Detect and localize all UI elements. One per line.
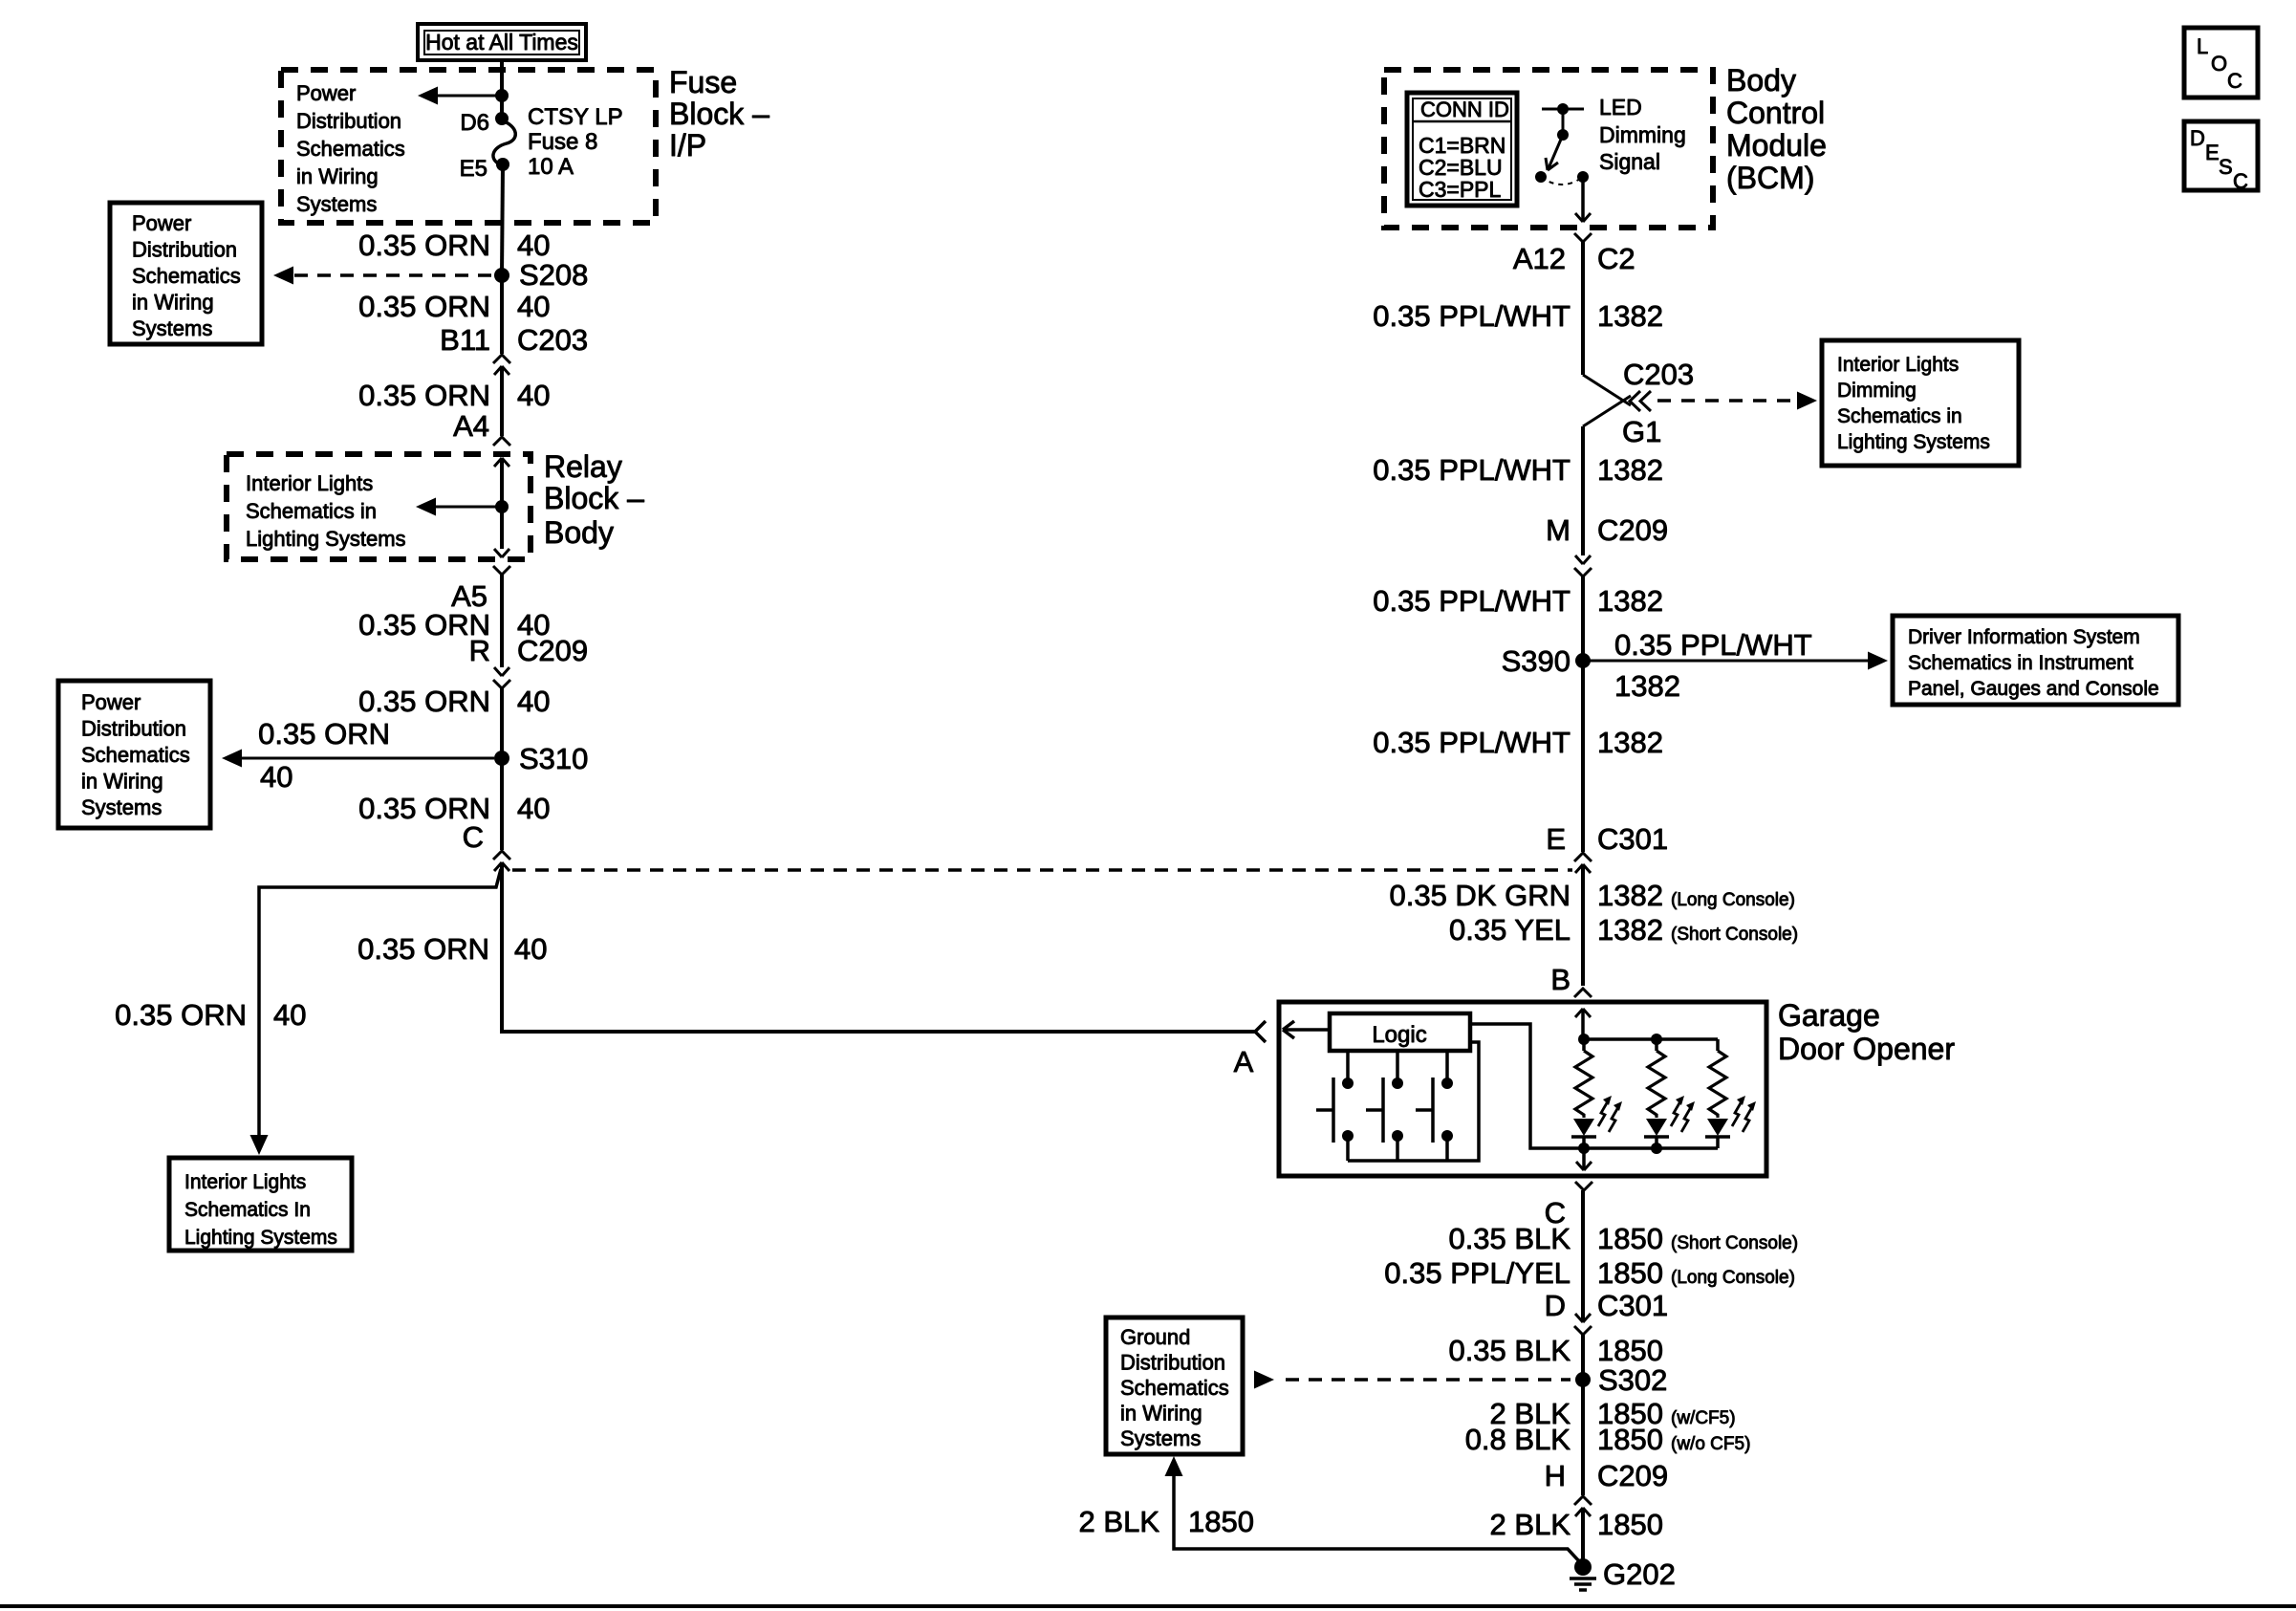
svg-text:0.35 ORN: 0.35 ORN [358,379,490,412]
svg-text:D: D [2190,126,2205,150]
svg-text:H: H [1545,1459,1566,1492]
svg-text:(Long Console): (Long Console) [1671,890,1795,910]
svg-text:I/P: I/P [669,128,706,163]
svg-text:in Wiring: in Wiring [81,770,163,794]
svg-text:C: C [2227,69,2242,93]
svg-text:C203: C203 [517,323,588,357]
svg-text:Schematics: Schematics [81,743,190,767]
svg-text:0.35 BLK: 0.35 BLK [1448,1222,1570,1255]
svg-text:E: E [1546,822,1566,856]
svg-text:(w/CF5): (w/CF5) [1671,1408,1736,1428]
svg-text:L: L [2197,34,2208,58]
svg-text:1850: 1850 [1597,1222,1663,1255]
svg-text:Driver Information System: Driver Information System [1908,626,2140,648]
svg-text:C209: C209 [517,634,588,667]
svg-text:C301: C301 [1597,822,1668,856]
svg-text:1382: 1382 [1614,669,1680,703]
svg-text:Module: Module [1726,128,1827,163]
svg-text:0.35 DK GRN: 0.35 DK GRN [1389,879,1570,912]
svg-text:Relay: Relay [544,449,622,484]
svg-text:0.35 PPL/WHT: 0.35 PPL/WHT [1373,584,1570,618]
svg-text:B11: B11 [440,323,490,357]
svg-text:Schematics in Instrument: Schematics in Instrument [1908,652,2134,674]
svg-text:0.35 BLK: 0.35 BLK [1448,1334,1570,1367]
svg-text:Distribution: Distribution [132,238,237,262]
svg-text:0.35 YEL: 0.35 YEL [1449,913,1570,947]
svg-text:40: 40 [273,998,306,1032]
svg-text:Panel, Gauges and Console: Panel, Gauges and Console [1908,678,2159,700]
svg-text:A12: A12 [1513,242,1566,275]
svg-text:A: A [1234,1045,1254,1078]
svg-text:Distribution: Distribution [81,717,186,741]
svg-text:C2: C2 [1597,242,1635,275]
svg-text:S390: S390 [1502,644,1570,678]
svg-text:Interior Lights: Interior Lights [246,471,373,495]
svg-text:Schematics: Schematics [296,137,405,161]
svg-text:Schematics: Schematics [1120,1376,1229,1400]
svg-text:1382: 1382 [1597,453,1663,487]
svg-text:0.35 ORN: 0.35 ORN [115,998,247,1032]
svg-text:in Wiring: in Wiring [132,291,214,315]
svg-text:Control: Control [1726,96,1825,130]
svg-text:2 BLK: 2 BLK [1079,1505,1160,1538]
svg-text:Fuse: Fuse [669,65,737,99]
svg-text:Block –: Block – [544,481,644,515]
svg-text:1382: 1382 [1597,879,1663,912]
svg-text:Logic: Logic [1372,1022,1426,1048]
svg-text:CTSY LP: CTSY LP [528,104,623,130]
svg-text:Power: Power [296,81,356,105]
svg-text:G1: G1 [1622,415,1661,448]
svg-text:0.35 PPL/WHT: 0.35 PPL/WHT [1614,628,1812,662]
svg-text:R: R [469,634,490,667]
svg-text:S: S [2219,155,2233,179]
svg-text:E5: E5 [460,156,487,182]
svg-text:Signal: Signal [1599,149,1660,174]
svg-text:1850: 1850 [1597,1256,1663,1290]
svg-text:S208: S208 [519,258,588,292]
svg-text:0.35 ORN: 0.35 ORN [358,229,490,262]
svg-text:Distribution: Distribution [296,109,401,133]
svg-text:O: O [2211,52,2227,76]
svg-text:A4: A4 [453,409,489,443]
svg-text:G202: G202 [1603,1557,1676,1591]
svg-text:Hot at All Times: Hot at All Times [425,30,578,54]
svg-text:(Short Console): (Short Console) [1671,925,1798,945]
svg-text:C203: C203 [1623,358,1694,391]
svg-text:0.35 ORN: 0.35 ORN [358,290,490,323]
svg-text:Garage: Garage [1778,998,1880,1033]
svg-text:CONN ID: CONN ID [1420,98,1509,121]
svg-text:40: 40 [517,290,550,323]
svg-text:40: 40 [517,685,550,718]
svg-text:Schematics in: Schematics in [246,499,377,523]
svg-text:1850: 1850 [1597,1508,1663,1541]
svg-text:1850: 1850 [1597,1423,1663,1456]
svg-text:C: C [463,820,484,854]
svg-text:0.35 PPL/YEL: 0.35 PPL/YEL [1384,1256,1570,1290]
svg-text:E: E [2205,141,2220,164]
svg-text:Systems: Systems [81,795,162,819]
svg-text:D6: D6 [460,110,489,136]
svg-text:0.35 PPL/WHT: 0.35 PPL/WHT [1373,453,1570,487]
svg-text:Lighting Systems: Lighting Systems [246,527,406,551]
svg-text:in Wiring: in Wiring [296,164,379,188]
svg-text:D: D [1545,1289,1566,1322]
svg-text:Schematics: Schematics [132,264,241,288]
svg-text:0.8 BLK: 0.8 BLK [1465,1423,1571,1456]
svg-text:(BCM): (BCM) [1726,161,1814,195]
svg-text:0.35 ORN: 0.35 ORN [258,717,390,751]
svg-text:0.35 ORN: 0.35 ORN [358,685,490,718]
svg-text:0.35 PPL/WHT: 0.35 PPL/WHT [1373,299,1570,333]
svg-text:Systems: Systems [1120,1426,1201,1450]
svg-text:40: 40 [517,792,550,825]
svg-text:in Wiring: in Wiring [1120,1402,1202,1426]
svg-text:C: C [2233,169,2248,193]
svg-text:Lighting Systems: Lighting Systems [1837,431,1990,453]
svg-text:Ground: Ground [1120,1325,1190,1349]
svg-text:1850: 1850 [1188,1505,1254,1538]
svg-text:10 A: 10 A [528,154,574,180]
svg-text:0.35 PPL/WHT: 0.35 PPL/WHT [1373,726,1570,759]
svg-text:Power: Power [132,211,191,235]
svg-text:C209: C209 [1597,1459,1668,1492]
svg-text:Lighting Systems: Lighting Systems [184,1227,337,1249]
svg-text:1382: 1382 [1597,726,1663,759]
svg-text:1382: 1382 [1597,913,1663,947]
svg-text:40: 40 [514,932,547,966]
svg-text:Interior Lights: Interior Lights [184,1171,306,1193]
svg-text:0.35 ORN: 0.35 ORN [357,932,489,966]
svg-text:Schematics In: Schematics In [184,1199,311,1221]
svg-text:1850: 1850 [1597,1334,1663,1367]
svg-text:2 BLK: 2 BLK [1490,1508,1571,1541]
svg-text:C3=PPL: C3=PPL [1419,177,1502,202]
svg-text:Interior Lights: Interior Lights [1837,354,1959,376]
svg-text:S302: S302 [1598,1363,1667,1397]
svg-text:40: 40 [517,379,550,412]
svg-text:1382: 1382 [1597,299,1663,333]
svg-text:Body: Body [544,515,614,550]
svg-text:40: 40 [260,760,292,794]
svg-text:C301: C301 [1597,1289,1668,1322]
svg-text:C209: C209 [1597,513,1668,547]
svg-text:Body: Body [1726,63,1796,98]
svg-text:Dimming: Dimming [1837,380,1917,402]
svg-text:Power: Power [81,690,141,714]
svg-text:(Short Console): (Short Console) [1671,1233,1798,1253]
svg-text:Fuse 8: Fuse 8 [528,129,597,155]
svg-text:LED: LED [1599,95,1642,120]
svg-text:B: B [1550,963,1570,996]
svg-text:(Long Console): (Long Console) [1671,1268,1795,1288]
svg-text:1382: 1382 [1597,584,1663,618]
svg-text:Dimming: Dimming [1599,122,1686,147]
svg-text:Block –: Block – [669,97,769,131]
svg-text:(w/o CF5): (w/o CF5) [1671,1434,1750,1454]
svg-text:40: 40 [517,229,550,262]
svg-text:Systems: Systems [296,192,377,216]
svg-text:S310: S310 [519,742,588,775]
svg-text:Door Opener: Door Opener [1778,1032,1955,1066]
svg-text:Distribution: Distribution [1120,1351,1225,1375]
svg-text:Schematics in: Schematics in [1837,405,1962,427]
svg-text:Systems: Systems [132,316,212,340]
svg-text:M: M [1546,513,1570,547]
